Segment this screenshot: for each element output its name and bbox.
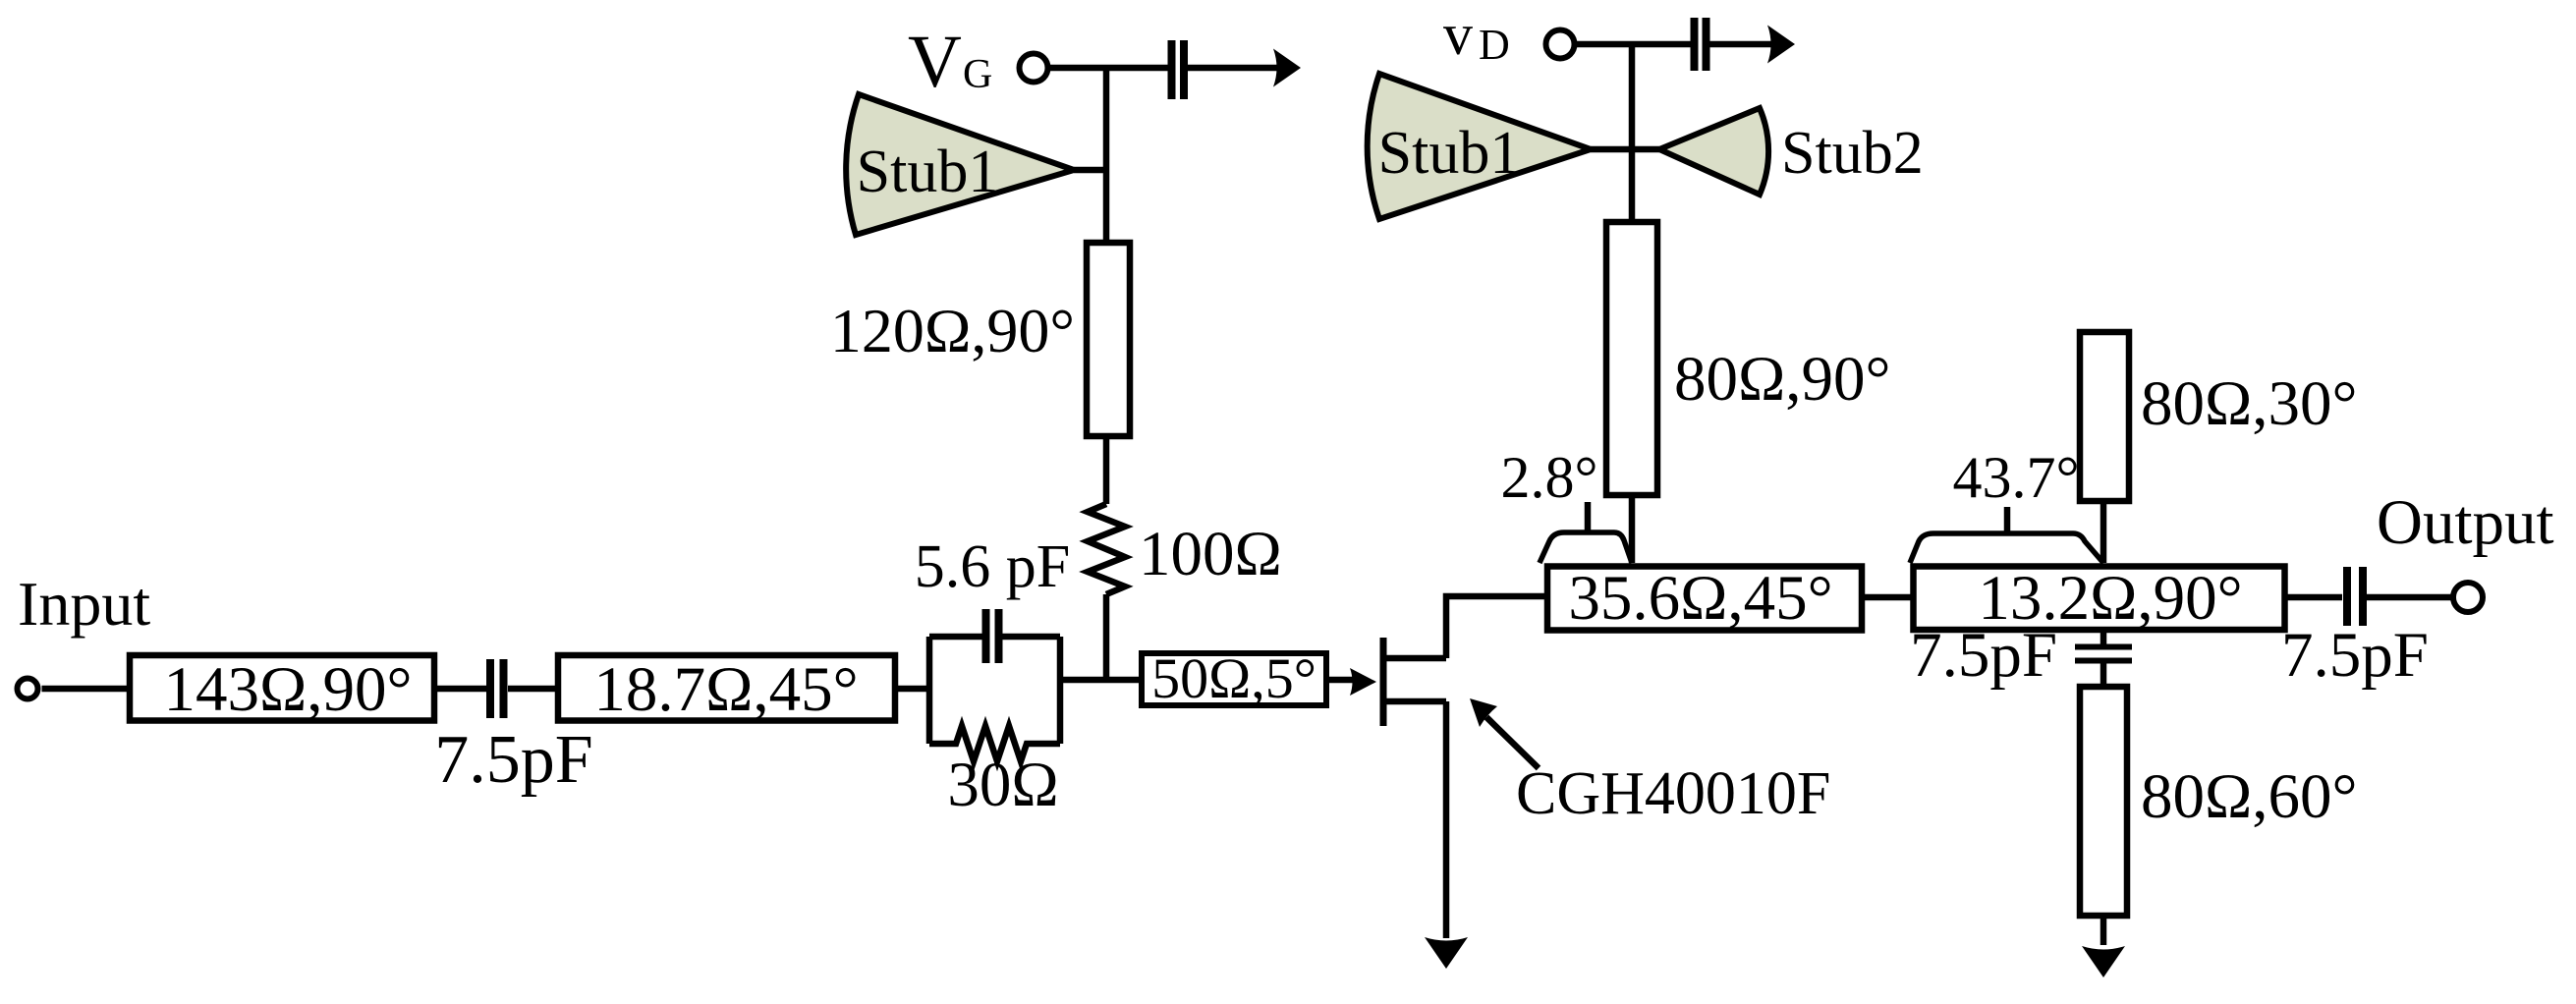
svg-text:Stub1: Stub1 — [857, 139, 999, 205]
svg-text:5.6 pF: 5.6 pF — [915, 533, 1070, 600]
svg-text:30Ω: 30Ω — [947, 750, 1058, 820]
svg-text:Input: Input — [18, 569, 150, 639]
svg-text:80Ω,90°: 80Ω,90° — [1674, 344, 1891, 415]
svg-text:100Ω: 100Ω — [1139, 519, 1282, 589]
svg-text:D: D — [1479, 21, 1510, 69]
svg-text:43.7°: 43.7° — [1953, 445, 2080, 510]
svg-text:V: V — [908, 21, 962, 103]
svg-text:7.5pF: 7.5pF — [2281, 620, 2429, 691]
svg-text:v: v — [1443, 2, 1473, 67]
svg-text:G: G — [963, 52, 992, 97]
svg-text:Output: Output — [2377, 487, 2554, 558]
svg-text:2.8°: 2.8° — [1501, 445, 1598, 510]
svg-text:50Ω,5°: 50Ω,5° — [1151, 646, 1316, 710]
svg-text:7.5pF: 7.5pF — [1910, 620, 2057, 691]
svg-text:CGH40010F: CGH40010F — [1516, 760, 1830, 827]
svg-text:80Ω,30°: 80Ω,30° — [2141, 368, 2358, 439]
svg-text:143Ω,90°: 143Ω,90° — [163, 654, 412, 725]
svg-text:18.7Ω,45°: 18.7Ω,45° — [593, 654, 858, 725]
svg-text:Stub1: Stub1 — [1378, 120, 1521, 187]
svg-text:35.6Ω,45°: 35.6Ω,45° — [1568, 563, 1832, 634]
svg-text:7.5pF: 7.5pF — [434, 722, 592, 798]
svg-text:120Ω,90°: 120Ω,90° — [830, 296, 1075, 365]
svg-text:Stub2: Stub2 — [1781, 120, 1924, 187]
svg-text:80Ω,60°: 80Ω,60° — [2141, 761, 2358, 832]
